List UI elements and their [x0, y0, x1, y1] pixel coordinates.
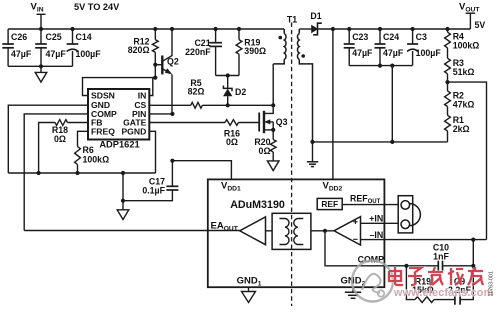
junction R18/gnd bus	[37, 171, 41, 175]
junction secondary gnd	[310, 140, 314, 144]
junction C14	[70, 27, 74, 31]
phase dot secondary	[301, 54, 305, 58]
capacitor C23	[344, 29, 355, 66]
wire: to input ground	[40, 66, 42, 72]
svg-text:D2: D2	[235, 87, 246, 97]
ground: controller side	[117, 210, 129, 220]
svg-text:C23: C23	[352, 32, 368, 42]
svg-text:47µF: 47µF	[11, 49, 32, 59]
wire: snubber bottom join	[216, 75, 239, 77]
wire: analog ground bus	[8, 172, 155, 174]
svg-text:+IN: +IN	[369, 214, 383, 224]
svg-text:0Ω: 0Ω	[54, 134, 66, 144]
svg-text:390Ω: 390Ω	[244, 46, 266, 56]
diode D1 (schottky)	[312, 23, 471, 35]
resistor R4	[445, 29, 451, 58]
junction C17 return	[121, 199, 125, 203]
svg-text:5V: 5V	[475, 20, 486, 30]
junction drain node	[271, 103, 275, 107]
wire: +IN rail	[361, 222, 399, 224]
svg-text:5V TO 24V: 5V TO 24V	[74, 2, 120, 12]
capacitor C25	[35, 29, 47, 66]
svg-text:IN: IN	[138, 91, 147, 101]
junction R6/gnd bus	[75, 171, 79, 175]
ground: GND2 earth	[345, 292, 361, 298]
wire: -IN rail	[361, 239, 487, 241]
wire: PIN pin to Q2 emitter	[149, 113, 172, 115]
svg-text:100µF: 100µF	[416, 48, 442, 58]
resistor R1	[445, 115, 451, 142]
wire: output cap bottom rail	[349, 65, 412, 67]
REF block	[317, 198, 342, 209]
junction PIN/emitter	[170, 112, 174, 116]
wire: REFOUT rail	[342, 204, 398, 206]
svg-text:82Ω: 82Ω	[188, 87, 205, 97]
svg-text:0.1µF: 0.1µF	[142, 186, 165, 196]
transformer T1 primary	[273, 29, 286, 64]
junction D2/CS	[226, 103, 230, 107]
svg-text:C3: C3	[416, 32, 427, 42]
transistor Q3 (NMOS)	[259, 64, 273, 140]
svg-text:11763-001: 11763-001	[488, 271, 494, 296]
wire: SDSN-IN loop	[83, 78, 156, 96]
svg-text:820Ω: 820Ω	[128, 45, 150, 55]
wire: COMP pin down-left	[24, 114, 88, 231]
svg-text:www.elecfans.com: www.elecfans.com	[393, 287, 493, 299]
junction R12	[153, 27, 157, 31]
svg-text:0Ω: 0Ω	[259, 146, 271, 156]
junction cap bottom	[39, 64, 43, 68]
svg-text:Q3: Q3	[276, 117, 288, 127]
resistor R12	[152, 29, 158, 78]
junction VDD1 feed	[170, 159, 174, 163]
capacitor C24	[375, 29, 386, 66]
svg-text:47kΩ: 47kΩ	[453, 100, 475, 110]
transformer: isolation micro-transformer box	[272, 213, 311, 249]
junction R12/Q2 base	[153, 63, 157, 67]
svg-text:C14: C14	[76, 32, 92, 42]
svg-text:100kΩ: 100kΩ	[83, 154, 110, 164]
wire: EAOUT to COMP of ADP1621	[24, 230, 208, 232]
capacitor C17	[166, 161, 178, 190]
resistor R5 (CS line)	[149, 102, 273, 108]
transformer T1 secondary	[297, 29, 312, 142]
wire: secondary ground bus	[313, 141, 448, 143]
wire: C17 bottom return	[123, 190, 172, 201]
op-amp U2 ADuM3190 box	[208, 179, 385, 287]
watermark chinese text red pass	[389, 267, 483, 285]
resistor R18 (FB)	[39, 120, 88, 173]
capacitor C3 (polarized)	[407, 29, 418, 66]
wire: micro-transformer to error amp	[311, 230, 334, 232]
op-amp: ADuM3190 error amp	[334, 217, 361, 245]
resistor R16 (GATE line)	[149, 120, 259, 126]
wire: to secondary earth gnd	[312, 142, 314, 162]
wire: VOUT terminal	[466, 13, 476, 29]
svg-text:220nF: 220nF	[185, 47, 211, 57]
svg-text:C26: C26	[11, 32, 27, 42]
junction Q3 source	[271, 128, 275, 132]
junction R4	[445, 27, 449, 31]
resistor R3	[445, 58, 451, 91]
ground: power switch	[267, 161, 279, 171]
svg-text:1nF: 1nF	[433, 251, 449, 261]
wire: VIN terminal stub	[37, 14, 46, 29]
phase dot primary	[279, 36, 283, 40]
wire: input cap bottom rail	[8, 65, 72, 67]
svg-text:Q2: Q2	[167, 56, 179, 66]
wire: input top bus	[8, 28, 284, 30]
junction output return	[390, 140, 394, 144]
wire: ground bus to triangle	[122, 173, 124, 210]
junction C21	[214, 27, 218, 31]
svg-text:FREQ: FREQ	[91, 126, 115, 136]
svg-text:PGND: PGND	[121, 126, 146, 136]
resistor R2	[445, 91, 451, 115]
ground: input side	[35, 72, 47, 82]
junction feedback tap	[445, 80, 449, 84]
wire: feedback tap to -IN	[448, 82, 487, 240]
wire: GND pin to ground bus	[8, 105, 88, 173]
ground: secondary earth	[307, 162, 318, 167]
label plus input	[353, 220, 357, 224]
junction R19	[237, 27, 241, 31]
ground: GND1 triangle	[242, 292, 256, 303]
svg-text:47µF: 47µF	[352, 48, 373, 58]
wire: VDD1 feed to ADuM3190	[172, 161, 231, 180]
capacitor C21	[209, 29, 222, 76]
capacitor C26	[2, 29, 14, 66]
op-amp U1 ADP1621 box	[88, 89, 149, 140]
resistor R6 (FREQ)	[75, 131, 88, 173]
svg-text:SDSN: SDSN	[91, 91, 115, 101]
capacitor C9 plates	[455, 295, 460, 305]
svg-text:C24: C24	[383, 32, 399, 42]
wire: buffer to micro-transformer	[266, 230, 273, 232]
wire: secondary to D1	[299, 28, 311, 30]
junction amp out/COMP	[323, 229, 327, 233]
junction comp net/-IN	[471, 238, 475, 242]
resistor R19 (snubber)	[236, 29, 242, 76]
svg-text:0Ω: 0Ω	[226, 137, 238, 147]
diode D2 (zener)	[223, 76, 232, 106]
junction C24 bottom	[378, 64, 382, 68]
watermark stamp circle	[352, 261, 393, 302]
svg-text:2kΩ: 2kΩ	[453, 124, 470, 134]
junction snubber/D2	[226, 73, 230, 77]
svg-text:100µF: 100µF	[76, 49, 102, 59]
svg-text:47µF: 47µF	[383, 48, 404, 58]
op-amp: ADuM3190 output buffer	[240, 217, 266, 245]
junction output return drop	[390, 64, 394, 68]
svg-text:ADuM3190: ADuM3190	[230, 199, 285, 211]
junction gnd bus drop	[121, 171, 125, 175]
transistor Q2 (NPN)	[155, 29, 172, 114]
junction VDD2 tap	[331, 27, 335, 31]
junction Q2 collector	[170, 27, 174, 31]
capacitor C10	[438, 261, 442, 271]
wire: VDD2 drop to ADuM3190	[332, 29, 334, 179]
svg-text:–IN: –IN	[369, 230, 383, 240]
svg-text:C25: C25	[46, 32, 62, 42]
wire: output return drop	[391, 66, 393, 142]
svg-text:51kΩ: 51kΩ	[453, 67, 475, 77]
junction SDSN/IN node	[153, 76, 157, 80]
svg-text:47µF: 47µF	[46, 49, 67, 59]
label minus input	[353, 238, 357, 240]
svg-text:D1: D1	[310, 11, 321, 21]
wire: buffer apex to box edge	[208, 230, 240, 232]
resistor R20	[270, 140, 276, 161]
junction comp net right	[471, 264, 475, 268]
svg-text:100kΩ: 100kΩ	[453, 41, 480, 51]
junction comp net left	[404, 264, 408, 268]
wire: PGND pin to ground bus	[149, 131, 155, 173]
connector J1 with jumper	[398, 196, 420, 233]
junction C24	[378, 27, 382, 31]
svg-text:REF: REF	[321, 199, 338, 209]
isolation barrier dashed line	[291, 23, 293, 307]
watermark chinese text	[389, 267, 483, 285]
junction C3	[411, 27, 415, 31]
wire: COMP node vertical and rail	[325, 231, 473, 266]
resistor R19 15k / capacitor C9 branch	[406, 266, 473, 303]
junction VIN/C25	[39, 27, 43, 31]
capacitor C14 (polarized)	[67, 29, 79, 66]
junction C23	[347, 27, 351, 31]
svg-text:ADP1621: ADP1621	[99, 139, 139, 149]
